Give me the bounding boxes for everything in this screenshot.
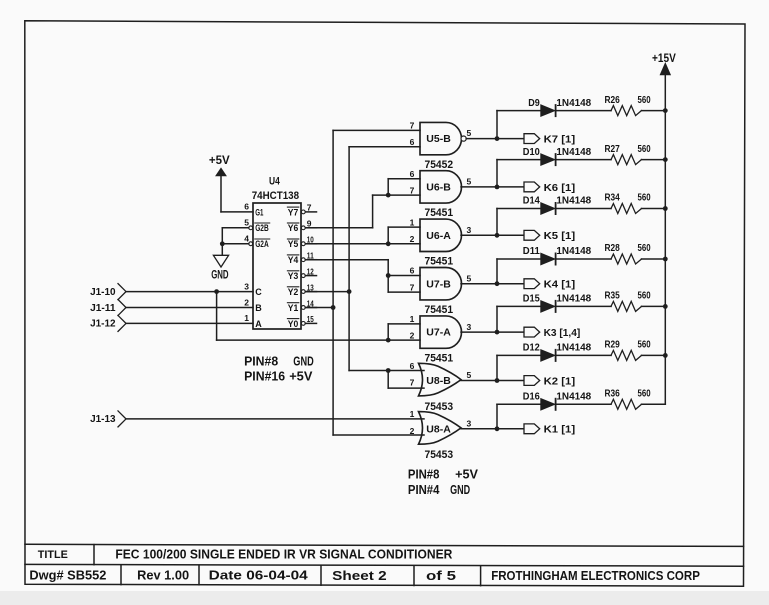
U4 inverting bubble pin 14 (301, 306, 305, 310)
U4 pin label B (255, 303, 262, 313)
net Y1 wire U4 pin 14 to U5-B and U8-A (306, 130, 425, 435)
svg-text:75451: 75451 (425, 352, 454, 364)
U4 output label Y7 (288, 207, 299, 217)
svg-text:560: 560 (638, 243, 651, 254)
svg-text:Y4: Y4 (288, 255, 299, 265)
svg-text:of 5: of 5 (426, 568, 456, 583)
wire resistor to +15V rail (642, 305, 666, 307)
U6-B pin number 6 (410, 169, 415, 179)
svg-text:PIN#8: PIN#8 (244, 353, 278, 368)
U4 pin 11 stub (306, 259, 317, 261)
svg-text:560: 560 (638, 193, 651, 204)
svg-text:FROTHINGHAM ELECTRONICS CORP: FROTHINGHAM ELECTRONICS CORP (491, 568, 700, 583)
svg-text:1N4148: 1N4148 (556, 246, 591, 257)
svg-text:Y6: Y6 (288, 223, 299, 233)
svg-text:U8-B: U8-B (426, 376, 451, 387)
gate U5-B 75452 (420, 122, 462, 170)
diode D9 1N4148 (528, 98, 591, 117)
terminal K4 (524, 279, 575, 291)
U7-A pin number 2 (410, 331, 415, 341)
wire branch to diode row (497, 111, 541, 139)
svg-text:+5V: +5V (455, 466, 478, 481)
wire resistor to +15V rail (642, 354, 666, 356)
junction (214, 289, 219, 294)
U8-A pin number 1 (410, 409, 415, 419)
svg-text:PIN#16: PIN#16 (244, 368, 285, 383)
wire +5V to U4 pin 6 G1 (221, 176, 253, 212)
net Y5 wire U4 pin 10 to U6-A (306, 243, 421, 245)
svg-text:5: 5 (244, 218, 249, 228)
svg-text:K4 [1]: K4 [1] (544, 280, 576, 291)
U4 pin number 4 (244, 234, 249, 244)
svg-text:75453: 75453 (425, 449, 454, 461)
svg-text:75451: 75451 (425, 304, 454, 316)
note driver power pins (408, 466, 478, 497)
svg-text:PIN#4: PIN#4 (408, 482, 440, 497)
U4 inverting bubble pin 13 (301, 290, 305, 294)
terminal K5 (524, 230, 575, 242)
svg-text:K3 [1,4]: K3 [1,4] (544, 328, 581, 339)
svg-text:FEC 100/200 SINGLE ENDED IR VR: FEC 100/200 SINGLE ENDED IR VR SIGNAL CO… (115, 547, 452, 561)
U8-B pin number 7 (410, 378, 415, 388)
net Y6 wire U4 pin 9 to U6-B (306, 195, 421, 228)
svg-text:R26: R26 (605, 95, 621, 106)
svg-text:75451: 75451 (425, 207, 454, 219)
U7-B pin number 7 (410, 282, 415, 292)
U4 pin number 2 (244, 297, 249, 307)
U7-A pin number 1 (410, 314, 415, 324)
U4 pin number 14 (307, 298, 314, 308)
svg-text:7: 7 (410, 186, 415, 196)
wire U7-A input tie (388, 324, 420, 340)
svg-text:Dwg# SB552: Dwg# SB552 (29, 567, 106, 582)
svg-text:75451: 75451 (425, 256, 454, 268)
wire diode to resistor (556, 354, 611, 356)
svg-text:R34: R34 (605, 193, 621, 204)
svg-text:Y3: Y3 (288, 271, 299, 281)
U4 pin number 11 (307, 251, 314, 261)
U5-B pin number 6 (410, 137, 415, 147)
U4 inverting bubble pin 4 (249, 242, 253, 246)
svg-text:75453: 75453 (425, 401, 454, 413)
svg-text:C: C (255, 287, 262, 297)
junction (347, 289, 352, 294)
junction (663, 304, 668, 309)
junction (386, 193, 391, 198)
junction (495, 136, 500, 141)
gate U8-B 75453 (419, 363, 462, 413)
svg-text:D14: D14 (523, 196, 540, 207)
connector J1-12 (90, 315, 126, 331)
wire branch to diode row (497, 404, 541, 429)
svg-text:75452: 75452 (425, 159, 454, 171)
svg-text:1: 1 (410, 217, 415, 227)
svg-text:PIN#8: PIN#8 (408, 466, 440, 481)
svg-text:R27: R27 (605, 144, 621, 155)
svg-text:D10: D10 (523, 147, 540, 158)
power +5V (209, 155, 230, 176)
svg-text:560: 560 (638, 291, 651, 302)
U5-B output bubble (461, 136, 466, 141)
U4 inverting bubble pin 7 (301, 210, 305, 214)
svg-text:GND: GND (293, 353, 313, 368)
IC U4 74HCT138 (253, 203, 301, 329)
svg-text:1: 1 (244, 313, 249, 323)
svg-text:5: 5 (467, 177, 472, 187)
svg-text:1: 1 (410, 409, 415, 419)
wire branch to diode row (497, 259, 541, 284)
resistor R29 560 (605, 340, 651, 361)
svg-text:7: 7 (410, 282, 415, 292)
junction (386, 273, 391, 278)
svg-text:560: 560 (638, 340, 651, 351)
svg-text:5: 5 (467, 128, 472, 138)
wire diode to resistor (556, 110, 611, 112)
svg-text:D16: D16 (523, 392, 540, 403)
wire J1-10 to U4 pin 3 C (126, 291, 253, 293)
terminal K3 (524, 327, 580, 339)
U4 inverting bubble pin 5 (249, 226, 253, 230)
svg-text:+5V: +5V (209, 155, 230, 167)
U8-A pin number 3 (467, 419, 472, 429)
U4 output label Y6 (288, 223, 299, 233)
svg-text:560: 560 (638, 144, 651, 155)
svg-text:3: 3 (467, 322, 472, 332)
U4 inverting bubble pin 11 (301, 258, 305, 262)
connector J1-11 (90, 300, 126, 316)
svg-text:G2B: G2B (255, 223, 269, 233)
junction (386, 241, 391, 246)
svg-text:U4: U4 (269, 176, 280, 188)
U4 pin label G2A (255, 239, 269, 249)
U4 pin label G2B (255, 223, 269, 233)
svg-text:2: 2 (244, 297, 249, 307)
svg-text:2: 2 (410, 426, 415, 436)
svg-text:6: 6 (410, 169, 415, 179)
gate U7-B 75451 (420, 268, 462, 317)
svg-text:5: 5 (467, 273, 472, 283)
svg-text:6: 6 (410, 361, 415, 371)
diode D14 1N4148 (523, 196, 592, 215)
svg-text:4: 4 (244, 234, 249, 244)
svg-text:G1: G1 (255, 207, 263, 217)
junction (495, 330, 500, 335)
U4 pin number 1 (244, 313, 249, 323)
svg-text:1: 1 (410, 314, 415, 324)
wire U6-B input tie (388, 179, 420, 195)
svg-text:D15: D15 (523, 294, 540, 305)
svg-text:1N4148: 1N4148 (556, 294, 591, 305)
svg-text:R36: R36 (605, 389, 621, 400)
wire branch to diode row (497, 355, 541, 380)
svg-text:7: 7 (410, 121, 415, 131)
svg-text:7: 7 (410, 378, 415, 388)
connector J1-10 (90, 284, 126, 300)
svg-text:K1 [1]: K1 [1] (544, 425, 576, 436)
wire U6-A input tie (388, 227, 420, 244)
resistor R27 560 (605, 144, 651, 165)
diode D10 1N4148 (523, 147, 592, 166)
junction (495, 378, 500, 383)
svg-text:U7-A: U7-A (426, 328, 451, 339)
svg-text:D12: D12 (523, 343, 540, 354)
svg-text:2: 2 (410, 234, 415, 244)
svg-text:J1-12: J1-12 (90, 319, 116, 330)
svg-text:J1-13: J1-13 (90, 414, 116, 425)
svg-text:J1-11: J1-11 (90, 303, 116, 314)
U4 pin number 7 (307, 203, 312, 213)
svg-text:3: 3 (467, 419, 472, 429)
resistor R34 560 (605, 193, 651, 214)
U6-A pin number 2 (410, 234, 415, 244)
wire branch to diode row (497, 209, 541, 236)
U4 output label Y1 (288, 303, 299, 313)
junction (331, 305, 336, 310)
U6-A pin number 3 (467, 225, 472, 235)
junction (663, 206, 668, 211)
U4 pin number 13 (307, 282, 314, 292)
U8-B pin number 6 (410, 361, 415, 371)
gate U8-A 75453 (419, 412, 462, 462)
junction (495, 281, 500, 286)
resistor R26 560 (605, 95, 651, 116)
U6-A pin number 1 (410, 217, 415, 227)
wire U5-B output (466, 138, 524, 140)
svg-text:GND: GND (450, 482, 470, 497)
junction (495, 233, 500, 238)
U4 pin number 12 (307, 266, 314, 276)
wire resistor to +15V rail (642, 403, 666, 405)
wire diode to resistor (556, 159, 611, 161)
svg-text:Y7: Y7 (288, 207, 299, 217)
svg-text:1N4148: 1N4148 (556, 343, 591, 354)
wire J1-13 to U8-A pin 1 (126, 418, 424, 420)
svg-text:K7 [1]: K7 [1] (544, 135, 576, 146)
junction (386, 338, 391, 343)
U4 pin 9 stub (306, 227, 317, 229)
U4 pin 15 stub (306, 322, 317, 324)
gate U7-A 75451 (420, 316, 462, 365)
U4 pin label C (255, 287, 262, 297)
wire U8-A output (461, 428, 524, 430)
wire U7-B output (461, 283, 524, 285)
U4 pin 13 stub (306, 291, 317, 293)
svg-text:1N4148: 1N4148 (556, 98, 591, 109)
U4 pin number 9 (307, 219, 312, 229)
svg-text:1N4148: 1N4148 (556, 196, 591, 207)
wire U7-A output (461, 331, 524, 333)
svg-text:Y2: Y2 (288, 287, 299, 297)
gate U6-B 75451 (420, 171, 461, 220)
wire U8-B input tie (388, 371, 424, 389)
U4 pin 14 stub (306, 307, 317, 309)
U4 output label Y2 (288, 287, 299, 297)
svg-text:U7-B: U7-B (426, 279, 451, 290)
diode D11 1N4148 (523, 246, 592, 265)
svg-text:U6-A: U6-A (426, 231, 451, 242)
U7-A pin number 3 (467, 322, 472, 332)
svg-text:1N4148: 1N4148 (556, 392, 591, 403)
net Y4 wire U4 pin 11 to U7-B (306, 260, 421, 292)
wire J1-12 to U4 pin 1 A (126, 322, 253, 324)
U7-B pin number 5 (467, 273, 472, 283)
junction (663, 108, 668, 113)
wire branch to diode row (497, 306, 541, 332)
U4 inverting bubble pin 15 (301, 322, 305, 326)
terminal K2 (524, 376, 575, 388)
U4 pin 12 stub (306, 275, 317, 277)
power +15V (652, 53, 676, 75)
U4 pin number 10 (307, 235, 314, 245)
svg-text:K6 [1]: K6 [1] (544, 183, 576, 194)
wire resistor to +15V rail (642, 110, 666, 112)
U4 inverting bubble pin 10 (301, 242, 305, 246)
svg-text:Sheet 2: Sheet 2 (332, 568, 387, 583)
svg-text:3: 3 (244, 281, 249, 291)
U4 output label Y3 (288, 271, 299, 281)
svg-text:Rev 1.00: Rev 1.00 (137, 567, 189, 582)
U4 output label Y0 (288, 319, 299, 329)
wire diode to resistor (556, 208, 611, 210)
svg-text:1N4148: 1N4148 (556, 147, 591, 158)
svg-text:2: 2 (410, 331, 415, 341)
junction (663, 353, 668, 358)
resistor R28 560 (605, 243, 651, 264)
diode D16 1N4148 (523, 392, 592, 411)
svg-text:+5V: +5V (289, 368, 313, 383)
svg-text:Date 06-04-04: Date 06-04-04 (209, 568, 309, 583)
wire J1-10 branch to U7-A (217, 292, 389, 341)
svg-text:74HCT138: 74HCT138 (252, 190, 299, 202)
junction (663, 257, 668, 262)
terminal K1 (524, 424, 575, 436)
U4 pin label G1 (255, 207, 263, 217)
svg-text:R28: R28 (605, 243, 621, 254)
svg-text:G2A: G2A (255, 239, 269, 249)
svg-text:6: 6 (244, 202, 249, 212)
svg-text:B: B (255, 303, 262, 313)
wire J1-11 to U4 pin 2 B (126, 307, 253, 309)
resistor R35 560 (605, 291, 651, 312)
terminal K6 (524, 182, 575, 194)
svg-text:R35: R35 (605, 291, 621, 302)
junction (220, 241, 225, 246)
U6-B pin number 7 (410, 186, 415, 196)
U4 pin number 6 (244, 202, 249, 212)
junction (495, 426, 500, 431)
U4 output label Y5 (288, 239, 299, 249)
terminal K7 (524, 134, 575, 146)
U4 pin number 3 (244, 281, 249, 291)
wire diode to resistor (556, 305, 611, 307)
svg-text:U5-B: U5-B (426, 134, 451, 145)
junction (386, 368, 391, 373)
U4 pin number 15 (307, 314, 314, 324)
diode D15 1N4148 (523, 294, 592, 313)
svg-text:A: A (255, 319, 262, 329)
U8-A pin number 2 (410, 426, 415, 436)
svg-text:U8-A: U8-A (426, 424, 451, 435)
U4 inverting bubble pin 12 (301, 274, 305, 278)
svg-text:K2 [1]: K2 [1] (544, 376, 576, 387)
title block (25, 544, 744, 585)
svg-text:Y0: Y0 (288, 319, 299, 329)
svg-text:Y5: Y5 (288, 239, 299, 249)
wire branch to diode row (497, 160, 541, 187)
svg-text:3: 3 (467, 225, 472, 235)
svg-text:560: 560 (638, 389, 651, 400)
connector J1-13 (90, 411, 126, 427)
wire U4 pin 5 G2B to ground (222, 228, 249, 255)
svg-text:6: 6 (410, 137, 415, 147)
wire U6-B output (461, 186, 524, 188)
U6-B pin number 5 (467, 177, 472, 187)
note U4 power pins (244, 353, 314, 383)
wire resistor to +15V rail (642, 159, 666, 161)
U4 pin label A (255, 319, 262, 329)
wire diode to resistor (556, 403, 611, 405)
svg-text:560: 560 (638, 95, 651, 106)
U8-B pin number 5 (467, 370, 472, 380)
U4 pin number 5 (244, 218, 249, 228)
U4 pin 10 stub (306, 243, 317, 245)
net Y2 wire U4 pin 13 to U5-B and U8-B (306, 147, 425, 371)
junction (495, 185, 500, 190)
wire resistor to +15V rail (642, 258, 666, 260)
U4 inverting bubble pin 9 (301, 226, 305, 230)
svg-text:J1-10: J1-10 (90, 287, 116, 298)
junction (663, 157, 668, 162)
svg-text:+15V: +15V (652, 53, 676, 65)
U5-B pin number 5 (467, 128, 472, 138)
svg-text:5: 5 (467, 370, 472, 380)
svg-text:U6-B: U6-B (426, 183, 451, 194)
diode D12 1N4148 (523, 343, 592, 362)
wire resistor to +15V rail (642, 208, 666, 210)
svg-text:K5 [1]: K5 [1] (544, 231, 576, 242)
U7-B pin number 6 (410, 266, 415, 276)
U4 output label Y4 (288, 255, 299, 265)
svg-text:TITLE: TITLE (38, 549, 68, 561)
wire U8-B output (461, 380, 524, 382)
svg-text:D9: D9 (528, 98, 540, 109)
svg-text:6: 6 (410, 266, 415, 276)
ground (211, 255, 228, 281)
svg-text:Y1: Y1 (288, 303, 299, 313)
wire +15V rail (664, 75, 666, 405)
U5-B pin number 7 (410, 121, 415, 131)
svg-text:R29: R29 (605, 340, 621, 351)
resistor R36 560 (605, 389, 651, 410)
wire diode to resistor (556, 258, 611, 260)
svg-text:GND: GND (211, 270, 228, 282)
U4 pin 7 stub (306, 211, 317, 213)
gate U6-A 75451 (420, 219, 462, 268)
svg-text:D11: D11 (523, 246, 540, 257)
wire U6-A output (461, 234, 524, 236)
